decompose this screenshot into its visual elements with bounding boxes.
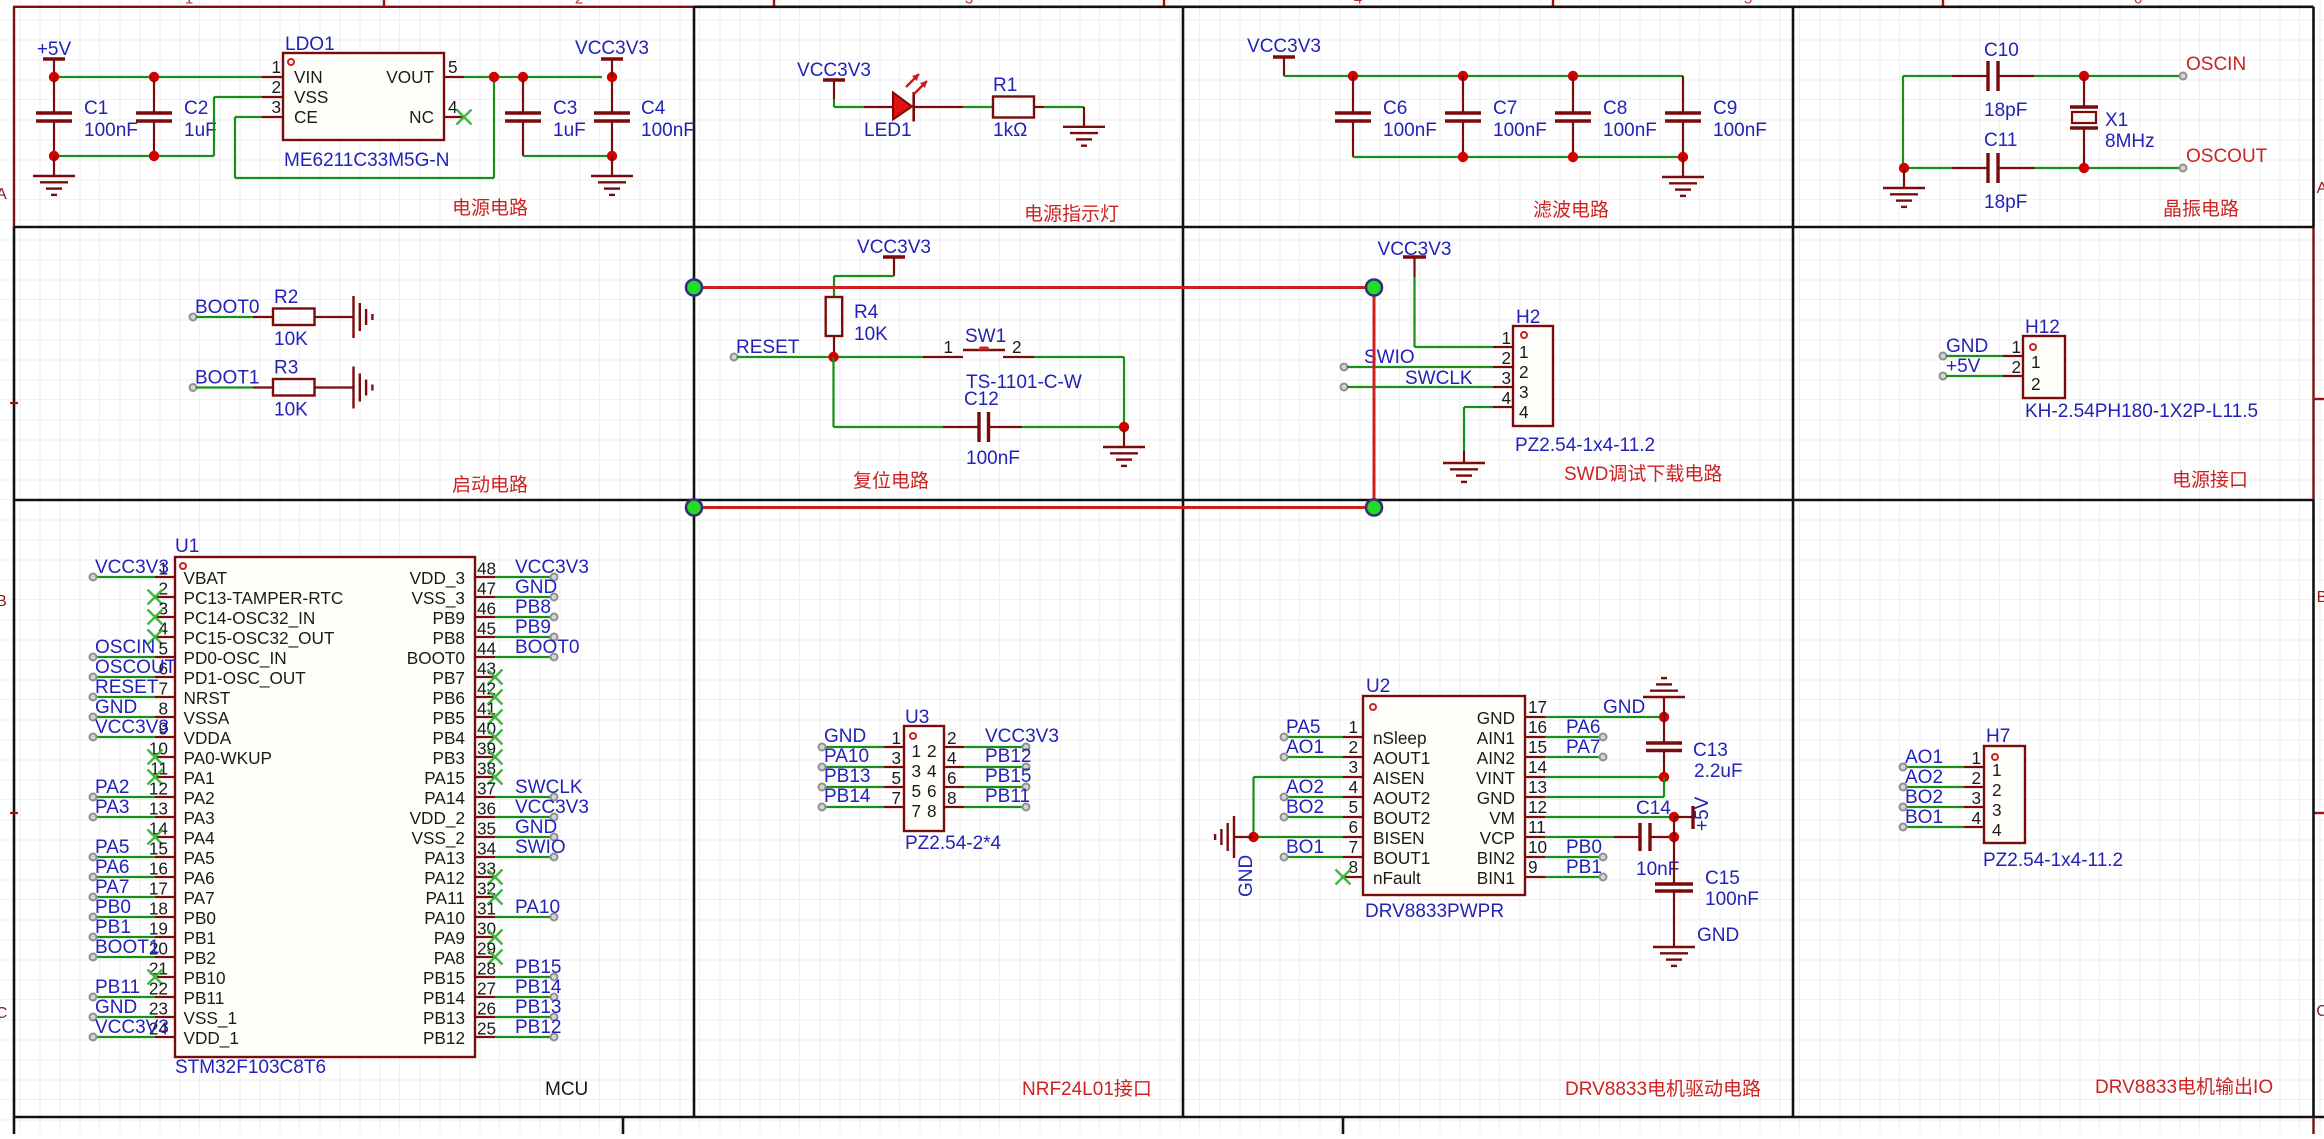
svg-text:SWD调试下载电路: SWD调试下载电路 [1564, 463, 1722, 485]
ground under C15 [1653, 946, 1695, 948]
svg-text:2: 2 [2011, 357, 2021, 377]
svg-text:RESET: RESET [95, 677, 159, 698]
svg-text:1kΩ: 1kΩ [993, 120, 1027, 141]
H12 pin 2 [2003, 375, 2023, 377]
LDO pin 2 VSS [262, 96, 283, 98]
H7 pin 4 [1964, 826, 1984, 828]
wire pin14 VINT to C13 [1545, 776, 1664, 778]
capacitor C1 [53, 77, 55, 113]
U1 pin 4 PC15-OSC32_OUT [155, 636, 175, 638]
svg-text:1: 1 [1519, 342, 1529, 362]
H7 pin 1 [1964, 766, 1984, 768]
svg-text:6: 6 [1348, 817, 1358, 837]
svg-text:1: 1 [2011, 337, 2021, 357]
U1 pin 41 PB5 [475, 716, 495, 718]
svg-text:100nF: 100nF [1383, 120, 1437, 141]
ground inverted above C13 [1663, 697, 1665, 717]
wire +5V h12 [1946, 375, 2003, 377]
svg-text:PD1-OSC_OUT: PD1-OSC_OUT [184, 668, 307, 688]
svg-text:1: 1 [1501, 328, 1511, 348]
capacitor C7 [1462, 76, 1464, 113]
wire H2 pin4 to ground [1464, 406, 1493, 408]
svg-text:PA6: PA6 [95, 857, 130, 878]
junction [49, 72, 59, 82]
svg-text:100nF: 100nF [1705, 889, 1759, 910]
svg-text:8: 8 [158, 699, 168, 719]
svg-text:3: 3 [891, 748, 901, 768]
svg-text:C6: C6 [1383, 98, 1407, 119]
svg-text:BOUT1: BOUT1 [1373, 848, 1430, 868]
svg-text:PA0-WKUP: PA0-WKUP [184, 748, 273, 768]
svg-text:12: 12 [1528, 797, 1547, 817]
svg-text:48: 48 [477, 559, 496, 579]
U2 pin 11 VCP [1525, 836, 1545, 838]
capacitor C13 2.2uF [1663, 717, 1665, 743]
svg-text:10: 10 [1528, 837, 1547, 857]
svg-text:100nF: 100nF [641, 120, 695, 141]
svg-text:1: 1 [271, 57, 281, 77]
driver U2 DRV8833PWPR [1363, 696, 1525, 895]
svg-text:PZ2.54-1x4-11.2: PZ2.54-1x4-11.2 [1983, 850, 2123, 871]
wire R2 to ground [315, 316, 354, 318]
svg-text:16: 16 [149, 859, 168, 879]
svg-text:2: 2 [1012, 337, 1022, 357]
svg-text:GND: GND [1697, 925, 1739, 946]
U1 pin 23 VSS_1 [155, 1016, 175, 1018]
svg-text:VCC3V3: VCC3V3 [1247, 36, 1321, 57]
svg-text:SWIO: SWIO [1364, 347, 1415, 368]
svg-text:BOOT0: BOOT0 [195, 297, 259, 318]
svg-text:PA8: PA8 [434, 948, 465, 968]
U1 pin 15 PA5 [155, 856, 175, 858]
next-row dividers below bottom line [622, 1117, 625, 1134]
svg-text:AIN1: AIN1 [1477, 728, 1515, 748]
svg-text:PB14: PB14 [515, 977, 562, 998]
svg-text:C: C [2316, 1003, 2324, 1020]
ground filter [1682, 157, 1684, 177]
svg-text:R3: R3 [274, 358, 298, 379]
svg-text:1: 1 [911, 741, 921, 761]
svg-text:PA15: PA15 [424, 768, 465, 788]
svg-text:PB14: PB14 [824, 786, 871, 807]
U1 pin 18 PB0 [155, 916, 175, 918]
U2 pin 8 nFault [1343, 876, 1363, 878]
U2 pin 6 BISEN [1343, 836, 1363, 838]
svg-text:2: 2 [1348, 737, 1358, 757]
svg-text:PA7: PA7 [1566, 737, 1601, 758]
svg-text:PB1: PB1 [184, 928, 217, 948]
svg-text:23: 23 [149, 999, 168, 1019]
svg-text:100nF: 100nF [966, 448, 1020, 469]
wire pin9 PB1 [1545, 876, 1601, 878]
svg-text:PA7: PA7 [95, 877, 130, 898]
svg-text:PB11: PB11 [95, 977, 140, 998]
svg-text:8MHz: 8MHz [2105, 131, 2155, 152]
svg-text:45: 45 [477, 619, 496, 639]
power flag VCC3V3 filter [1273, 55, 1295, 58]
U1 pin 19 PB1 [155, 936, 175, 938]
svg-text:nFault: nFault [1373, 868, 1421, 888]
svg-text:SWIO: SWIO [515, 837, 566, 858]
svg-text:22: 22 [149, 979, 168, 999]
svg-text:3: 3 [1501, 368, 1511, 388]
svg-text:MCU: MCU [545, 1079, 588, 1100]
svg-text:SWCLK: SWCLK [1405, 368, 1473, 389]
wire pin11 VCP to C14 [1545, 836, 1614, 838]
svg-text:19: 19 [149, 919, 168, 939]
U1 pin 17 PA7 [155, 896, 175, 898]
U2 pin 2 AOUT1 [1343, 756, 1363, 758]
svg-text:9: 9 [1528, 857, 1538, 877]
wire AISEN/BISEN to ground [1254, 776, 1344, 778]
svg-text:AIN2: AIN2 [1477, 748, 1515, 768]
svg-text:GND: GND [1236, 855, 1257, 897]
U1 pin 35 VSS_2 [475, 836, 495, 838]
svg-text:C13: C13 [1693, 740, 1728, 761]
capacitor C10 [1986, 61, 1989, 91]
svg-text:BIN2: BIN2 [1477, 848, 1515, 868]
svg-text:PB8: PB8 [515, 597, 551, 618]
ground under C4 [611, 156, 613, 176]
LDO LDO1 ME6211C33M5G-N [283, 53, 444, 140]
svg-text:PB1: PB1 [1566, 857, 1602, 878]
svg-text:10K: 10K [274, 329, 308, 350]
svg-text:PA5: PA5 [95, 837, 130, 858]
H2 pin 1 [1493, 346, 1513, 348]
U2 pin 17 GND [1525, 716, 1545, 718]
svg-text:10: 10 [149, 739, 168, 759]
U2 pin 12 VM [1525, 816, 1545, 818]
svg-text:3: 3 [1348, 757, 1358, 777]
wire VOUT rail [464, 76, 602, 78]
power flag VCC3V3 led [823, 78, 845, 81]
svg-text:VCC3V3: VCC3V3 [95, 717, 169, 738]
svg-text:晶振电路: 晶振电路 [2163, 198, 2239, 220]
svg-text:LED1: LED1 [864, 120, 912, 141]
svg-text:PB2: PB2 [184, 948, 217, 968]
resistor R3 10K [273, 379, 315, 396]
junction OSCOUT node [2079, 163, 2089, 173]
svg-text:1uF: 1uF [553, 120, 586, 141]
svg-text:nSleep: nSleep [1373, 728, 1427, 748]
svg-text:VCC3V3: VCC3V3 [95, 1017, 169, 1038]
U1 pin 36 VDD_2 [475, 816, 495, 818]
U1 pin 27 PB14 [475, 996, 495, 998]
U1 pin 1 VBAT [155, 576, 175, 578]
svg-text:DRV8833PWPR: DRV8833PWPR [1365, 901, 1504, 922]
wire pin16 PA6 [1545, 736, 1601, 738]
U1 pin 48 VDD_3 [475, 576, 495, 578]
svg-text:PZ2.54-1x4-11.2: PZ2.54-1x4-11.2 [1515, 435, 1655, 456]
ground reset [1123, 427, 1125, 447]
svg-text:VSS: VSS [294, 87, 328, 107]
svg-text:U3: U3 [905, 707, 929, 728]
svg-text:PB8: PB8 [433, 628, 466, 648]
svg-text:SW1: SW1 [965, 326, 1006, 347]
svg-text:PB13: PB13 [824, 766, 870, 787]
H2 pin 2 [1493, 366, 1513, 368]
svg-text:1: 1 [1992, 760, 2002, 780]
svg-text:3: 3 [1992, 800, 2002, 820]
svg-text:PB1: PB1 [95, 917, 131, 938]
svg-text:PB3: PB3 [433, 748, 466, 768]
wire VCC to R4 [834, 275, 894, 277]
svg-text:R2: R2 [274, 287, 298, 308]
svg-text:PC14-OSC32_IN: PC14-OSC32_IN [184, 608, 316, 628]
svg-text:5: 5 [158, 639, 168, 659]
svg-text:PB10: PB10 [184, 968, 226, 988]
svg-text:4: 4 [1348, 777, 1358, 797]
svg-text:4: 4 [448, 97, 458, 117]
node connector dot top-right [1366, 280, 1382, 296]
svg-text:BOOT0: BOOT0 [515, 637, 579, 658]
H7 pin 3 [1964, 806, 1984, 808]
svg-text:17: 17 [1528, 697, 1547, 717]
wire R3 to ground [315, 386, 354, 388]
svg-text:AO1: AO1 [1286, 737, 1324, 758]
wire to LED [833, 99, 835, 107]
U1 pin 28 PB15 [475, 976, 495, 978]
svg-text:VCC3V3: VCC3V3 [515, 797, 589, 818]
sheet frame border [13, 6, 2314, 8]
svg-text:8: 8 [947, 788, 957, 808]
H2 pin 3 [1493, 386, 1513, 388]
svg-text:VCC3V3: VCC3V3 [95, 557, 169, 578]
capacitor C4 [611, 77, 613, 113]
svg-text:2: 2 [1971, 768, 1981, 788]
svg-text:2: 2 [927, 741, 937, 761]
svg-text:100nF: 100nF [1493, 120, 1547, 141]
wire C12 bottom branch [832, 357, 834, 427]
wire pin15 PA7 [1545, 756, 1601, 758]
svg-text:16: 16 [1528, 717, 1547, 737]
svg-text:25: 25 [477, 1019, 496, 1039]
svg-text:BOOT1: BOOT1 [195, 368, 259, 389]
svg-text:7: 7 [1348, 837, 1358, 857]
header H7 PZ2.54-1x4-11.2 [1984, 746, 2025, 843]
svg-text:100nF: 100nF [1603, 120, 1657, 141]
wire crystal bottom rail [1904, 167, 1952, 169]
svg-text:36: 36 [477, 799, 496, 819]
svg-text:LDO1: LDO1 [285, 34, 335, 55]
U1 pin 21 PB10 [155, 976, 175, 978]
svg-text:GND: GND [824, 726, 866, 747]
svg-text:2: 2 [947, 728, 957, 748]
ground drv rotated [1233, 816, 1235, 858]
svg-text:PB7: PB7 [433, 668, 466, 688]
U2 pin 16 AIN1 [1525, 736, 1545, 738]
svg-text:4: 4 [1992, 820, 2002, 840]
U2 pin 13 GND [1525, 796, 1545, 798]
wire BOOT0 [196, 316, 253, 318]
svg-text:26: 26 [477, 999, 496, 1019]
svg-text:PA4: PA4 [184, 828, 216, 848]
ground rotated boot0 [352, 296, 354, 338]
svg-text:B: B [2317, 589, 2324, 606]
svg-text:10K: 10K [854, 324, 888, 345]
U1 pin 10 PA0-WKUP [155, 756, 175, 758]
wire filter top rail [1284, 75, 1683, 77]
svg-text:1: 1 [943, 337, 953, 357]
svg-text:PB9: PB9 [433, 608, 466, 628]
svg-text:VSS_2: VSS_2 [411, 828, 465, 848]
svg-text:2.2uF: 2.2uF [1694, 761, 1743, 782]
svg-text:A: A [2317, 180, 2324, 197]
wire bottom rail left [54, 155, 214, 157]
svg-text:R4: R4 [854, 302, 879, 323]
wire SWCLK [1347, 386, 1493, 388]
U1 pin 7 NRST [155, 696, 175, 698]
svg-text:4: 4 [947, 748, 957, 768]
svg-text:44: 44 [477, 639, 497, 659]
svg-text:2: 2 [1501, 348, 1511, 368]
svg-text:AO2: AO2 [1905, 767, 1943, 788]
svg-text:H2: H2 [1516, 307, 1540, 328]
svg-text:VCC3V3: VCC3V3 [1378, 239, 1452, 260]
svg-text:6: 6 [947, 768, 957, 788]
port OSCOUT [2180, 165, 2187, 172]
U1 pin 3 PC14-OSC32_IN [155, 616, 175, 618]
svg-text:12: 12 [149, 779, 168, 799]
wire pin12 VM to +5V [1545, 816, 1674, 818]
svg-text:电源接口: 电源接口 [2172, 469, 2248, 491]
U3 pin 8 [944, 806, 964, 808]
svg-text:2: 2 [2031, 374, 2041, 394]
svg-text:5: 5 [1348, 797, 1358, 817]
svg-text:35: 35 [477, 819, 496, 839]
svg-text:BOOT1: BOOT1 [95, 937, 159, 958]
U1 pin 11 PA1 [155, 776, 175, 778]
svg-text:46: 46 [477, 599, 496, 619]
svg-text:C2: C2 [184, 98, 208, 119]
U2 pin 9 BIN1 [1525, 876, 1545, 878]
svg-text:VDD_2: VDD_2 [410, 808, 465, 828]
svg-text:5: 5 [448, 57, 458, 77]
svg-text:17: 17 [149, 879, 168, 899]
U1 pin 30 PA9 [475, 936, 495, 938]
svg-text:VCC3V3: VCC3V3 [857, 237, 931, 258]
resistor R1 [993, 97, 1034, 118]
svg-text:GND: GND [95, 997, 137, 1018]
svg-text:PB14: PB14 [423, 988, 465, 1008]
svg-text:15: 15 [149, 839, 168, 859]
svg-text:VSSA: VSSA [184, 708, 230, 728]
svg-text:PA9: PA9 [434, 928, 465, 948]
svg-text:复位电路: 复位电路 [853, 470, 929, 492]
capacitor C15 100nF [1655, 882, 1693, 885]
U1 pin 26 PB13 [475, 1016, 495, 1018]
svg-text:NC: NC [409, 107, 434, 127]
svg-text:OSCIN: OSCIN [2186, 54, 2246, 75]
svg-text:2: 2 [158, 579, 168, 599]
svg-text:DRV8833电机驱动电路: DRV8833电机驱动电路 [1565, 1078, 1761, 1100]
svg-text:VOUT: VOUT [386, 67, 434, 87]
U3 pin 4 [944, 766, 964, 768]
svg-text:PB0: PB0 [95, 897, 131, 918]
U1 pin 37 PA14 [475, 796, 495, 798]
svg-text:VCC3V3: VCC3V3 [985, 726, 1059, 747]
node connector dot bottom-left [686, 500, 702, 516]
ground led [1063, 126, 1105, 128]
svg-text:PB0: PB0 [184, 908, 217, 928]
svg-text:PB12: PB12 [985, 746, 1031, 767]
ground crystal [1903, 168, 1905, 188]
svg-text:AO1: AO1 [1905, 747, 1943, 768]
svg-text:C14: C14 [1636, 798, 1671, 819]
LED LED1 [893, 93, 912, 120]
wire VCC to H2 pin1 [1413, 277, 1415, 347]
svg-text:U1: U1 [175, 536, 199, 557]
svg-text:PA13: PA13 [424, 848, 465, 868]
wire RESET [737, 356, 923, 358]
U1 pin 39 PB3 [475, 756, 495, 758]
svg-text:VINT: VINT [1476, 768, 1516, 788]
svg-text:VSS_1: VSS_1 [184, 1008, 238, 1028]
svg-text:VIN: VIN [294, 67, 323, 87]
svg-text:BIN1: BIN1 [1477, 868, 1515, 888]
svg-text:8: 8 [927, 801, 937, 821]
capacitor C2 [153, 77, 155, 113]
U1 pin 16 PA6 [155, 876, 175, 878]
wire BOOT1 [196, 386, 253, 388]
section divider grid (black) [694, 6, 2314, 9]
svg-text:VCC3V3: VCC3V3 [575, 38, 649, 59]
header H2 PZ2.54-1x4-11.2 [1513, 326, 1553, 426]
svg-text:A: A [0, 186, 7, 203]
svg-text:6: 6 [927, 781, 937, 801]
svg-text:4: 4 [1501, 388, 1511, 408]
svg-text:PA2: PA2 [95, 777, 130, 798]
U2 pin 14 VINT [1525, 776, 1545, 778]
svg-text:+5V: +5V [1946, 356, 1981, 377]
svg-text:PB11: PB11 [184, 988, 225, 1008]
svg-text:GND: GND [515, 577, 557, 598]
svg-text:U2: U2 [1366, 676, 1390, 697]
header U3 PZ2.54-2x4 [904, 726, 944, 831]
svg-text:PB0: PB0 [1566, 837, 1602, 858]
wire left side of crystal loop [1902, 76, 1904, 168]
U1 pin 38 PA15 [475, 776, 495, 778]
svg-text:C4: C4 [641, 98, 666, 119]
svg-text:GND: GND [1946, 336, 1988, 357]
U2 pin 7 BOUT1 [1343, 856, 1363, 858]
svg-text:GND: GND [1477, 788, 1515, 808]
crystal X1 8MHz [2083, 76, 2085, 107]
svg-text:18pF: 18pF [1984, 100, 2027, 121]
svg-text:PA6: PA6 [1566, 717, 1601, 738]
svg-text:28: 28 [477, 959, 496, 979]
svg-text:21: 21 [149, 959, 168, 979]
svg-text:DRV8833电机输出IO: DRV8833电机输出IO [2095, 1076, 2273, 1098]
svg-text:C1: C1 [84, 98, 108, 119]
svg-text:PA12: PA12 [424, 868, 465, 888]
ruler tick marks top [383, 0, 385, 7]
bus wire bottom [694, 506, 1374, 509]
svg-text:PB13: PB13 [423, 1008, 465, 1028]
LDO pin 3 CE [262, 116, 283, 118]
svg-text:PB12: PB12 [515, 1017, 561, 1038]
svg-text:VDDA: VDDA [184, 728, 232, 748]
svg-text:PA1: PA1 [184, 768, 215, 788]
wire +5V junction down to C15 [1673, 817, 1675, 884]
svg-text:PB15: PB15 [515, 957, 561, 978]
LDO pin 1 VIN [262, 76, 283, 78]
U1 pin 22 PB11 [155, 996, 175, 998]
ground rotated boot1 [352, 367, 354, 409]
svg-text:PA10: PA10 [424, 908, 465, 928]
svg-text:2: 2 [1519, 362, 1529, 382]
wire GND h12 [1946, 355, 2003, 357]
